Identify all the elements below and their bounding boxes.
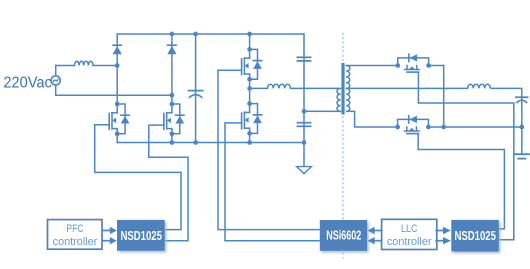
text 220Vac xyxy=(3,74,52,91)
block LLC controller xyxy=(382,219,437,249)
wire Q1 gate xyxy=(95,125,181,230)
diode D1 xyxy=(113,34,122,104)
transistor Q2 (PFC FET) xyxy=(164,102,184,143)
arrow LLC to NSi6602 pin2 xyxy=(368,237,382,244)
diode D2 xyxy=(167,34,176,104)
inductor Lr (resonant) xyxy=(268,84,291,88)
arrow PFC to NSD1025 pin1 xyxy=(103,227,117,234)
junction dot Co/bottom rail xyxy=(519,125,524,130)
wire secondary center tap xyxy=(346,87,467,89)
wire secondary bottom lead xyxy=(346,111,397,127)
block NSD1025 (left, gate driver) xyxy=(117,220,165,251)
node B (junction dot) xyxy=(170,93,175,98)
wire source rail xyxy=(117,142,304,144)
wire ac top lead xyxy=(56,66,75,76)
svg-text:LLC: LLC xyxy=(401,223,418,235)
junction dot Q2/rail xyxy=(170,140,175,145)
arrow LLC to NSD1025 pin2 xyxy=(436,237,451,244)
junction dot D2/top rail xyxy=(170,32,175,37)
junction dot Q4/rail xyxy=(247,140,252,145)
wire L1 to node A xyxy=(93,65,117,67)
arrow LLC to NSD1025 pin1 xyxy=(436,227,451,234)
wire Q3 gate xyxy=(218,70,320,229)
capacitor Cr1 (resonant) xyxy=(297,34,310,111)
svg-text:NSi6602: NSi6602 xyxy=(326,229,361,243)
wire Q4 gate xyxy=(225,123,320,241)
transistor Q5 (SR FET top) xyxy=(395,54,443,72)
wire primary return xyxy=(304,110,341,112)
transistor Q1 (PFC FET) xyxy=(109,102,129,143)
junction dot riser/bottom rail xyxy=(441,125,446,130)
node A (junction dot) xyxy=(115,63,120,68)
wire Lo to output node xyxy=(490,88,521,96)
svg-text:NSD1025: NSD1025 xyxy=(120,229,162,243)
block PFC controller xyxy=(48,220,103,250)
transformer T1 core xyxy=(341,63,344,115)
svg-text:220Vac: 220Vac xyxy=(3,74,52,91)
ground (primary) xyxy=(297,143,312,174)
ground (secondary) xyxy=(515,127,529,159)
wire top rail xyxy=(117,33,304,35)
wire Q5 gate xyxy=(418,72,513,240)
transformer T1 secondary winding xyxy=(346,66,350,112)
arrow PFC to NSD1025 pin2 xyxy=(103,237,117,244)
wire secondary top lead xyxy=(346,65,398,67)
junction dot Cr2/rail xyxy=(302,140,307,145)
wire HB mid to Lr xyxy=(250,87,268,89)
arrow LLC to NSi6602 pin1 xyxy=(368,227,382,234)
capacitor Cr2 (resonant) xyxy=(297,111,310,142)
junction dot C1/top rail xyxy=(193,32,198,37)
block NSi6602 (isolated driver) xyxy=(320,220,367,251)
transistor Q6 (SR FET bottom) xyxy=(395,116,431,134)
svg-text:NSD1025: NSD1025 xyxy=(454,229,496,243)
svg-text:PFC: PFC xyxy=(66,223,83,235)
capacitor Co (output) xyxy=(516,97,528,127)
wire secondary bottom rail xyxy=(428,126,521,128)
inductor Lo (output) xyxy=(468,84,491,88)
block NSD1025 (right, gate driver) xyxy=(451,220,499,252)
node HB (half-bridge midpoint) xyxy=(247,79,252,103)
svg-text:controller: controller xyxy=(387,236,432,248)
transistor Q4 (LLC low-side FET) xyxy=(242,101,262,142)
junction dot C1/rail xyxy=(193,140,198,145)
node PR (primary return tap) xyxy=(302,109,307,114)
transformer T1 primary winding xyxy=(337,88,341,111)
isolation barrier (dashed line) xyxy=(342,33,344,259)
capacitor C1 (bulk) xyxy=(189,34,203,143)
svg-text:controller: controller xyxy=(53,236,98,248)
wire Q5 output riser xyxy=(443,66,445,128)
ac source V1 xyxy=(51,76,60,85)
transistor Q3 (LLC high-side FET) xyxy=(242,34,262,82)
wire Lr to transformer primary xyxy=(291,87,341,89)
wire ac bottom lead xyxy=(56,85,172,95)
wire Q2 gate xyxy=(149,125,188,241)
junction dot Q3/top rail xyxy=(247,32,252,37)
wire Q6 gate xyxy=(418,134,504,229)
inductor L1 (PFC boost) xyxy=(75,61,94,65)
